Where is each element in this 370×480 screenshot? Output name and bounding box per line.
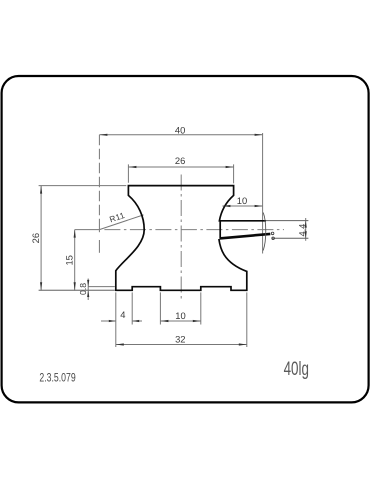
- svg-text:2.3.5.079: 2.3.5.079: [39, 371, 75, 385]
- arrow 40 right: [255, 134, 263, 136]
- extension line 4.4 bottom: [272, 237, 309, 239]
- centerline horizontal: [104, 229, 284, 231]
- arrow 10slot right: [255, 205, 263, 207]
- tooth relief edge: [220, 234, 271, 239]
- connector 15 to axis: [75, 229, 100, 231]
- svg-text:10: 10: [237, 195, 247, 206]
- extension line 26-left top: [39, 185, 127, 187]
- extension line notch level: [88, 286, 115, 288]
- dimension line 4.4: [305, 218, 307, 241]
- svg-text:26: 26: [175, 155, 185, 166]
- dimension line 26 top: [128, 166, 233, 168]
- extension line 4.4 top: [266, 220, 308, 222]
- arrow 10bot left: [160, 320, 168, 322]
- svg-text:40: 40: [175, 124, 185, 135]
- centerline vertical: [180, 175, 182, 301]
- svg-text:0.8: 0.8: [78, 283, 88, 295]
- dimension line 40: [99, 134, 262, 136]
- dimension line 32: [116, 344, 247, 346]
- tip mark circle 1: [271, 232, 274, 235]
- cutting circle arc: [263, 213, 266, 251]
- svg-text:32: 32: [175, 333, 185, 344]
- arrow 4.4 up: [305, 221, 307, 228]
- svg-text:4: 4: [120, 309, 125, 320]
- extension line base bottom: [39, 289, 115, 291]
- svg-text:10: 10: [175, 310, 185, 321]
- dimension line 0.8: [87, 279, 89, 301]
- arrows: [40, 134, 307, 346]
- arrow 32 left: [116, 343, 124, 345]
- svg-text:15: 15: [64, 255, 75, 265]
- arrow 4.4 down: [305, 231, 307, 238]
- dimension line 10 slot: [222, 205, 262, 207]
- axis dashed line x=99.4: [98, 135, 100, 230]
- arrow 40 left: [99, 134, 107, 136]
- extension lines 26-top: [128, 164, 233, 183]
- arrow 26top right: [226, 166, 234, 168]
- axis tick below center: [98, 230, 100, 232]
- arrow 10bot right: [193, 320, 201, 322]
- svg-text:26: 26: [30, 233, 41, 243]
- arrow 15 down: [74, 282, 76, 290]
- arrow 4 right-tip: [109, 320, 116, 322]
- arrow 26left down: [40, 282, 42, 290]
- extension lines bottom dims: [116, 292, 247, 347]
- slot left edge: [219, 221, 221, 239]
- arrow 32 right: [239, 343, 247, 345]
- arrow 0.8 lower: [87, 290, 89, 297]
- axis final dash: [98, 240, 100, 253]
- profile outline: [116, 186, 266, 291]
- arrow 26top left: [128, 166, 136, 168]
- tip mark circle 2: [272, 237, 275, 240]
- dimension line 26 left: [40, 186, 42, 291]
- svg-text:4.4: 4.4: [298, 224, 308, 237]
- dimension line 4 outside segments: [101, 320, 142, 322]
- arrow 10slot left: [222, 205, 230, 207]
- svg-text:40lg: 40lg: [284, 357, 309, 379]
- arrow 0.8 upper: [87, 280, 89, 287]
- arrow 15 up: [74, 230, 76, 238]
- arrow 26left up: [40, 186, 42, 194]
- arrow 4 left-tip: [132, 320, 139, 322]
- leader R11: [99, 215, 143, 230]
- dimension line 10 bottom: [160, 320, 200, 322]
- extension line x=262.6: [262, 133, 264, 254]
- dimension line 15: [74, 230, 76, 291]
